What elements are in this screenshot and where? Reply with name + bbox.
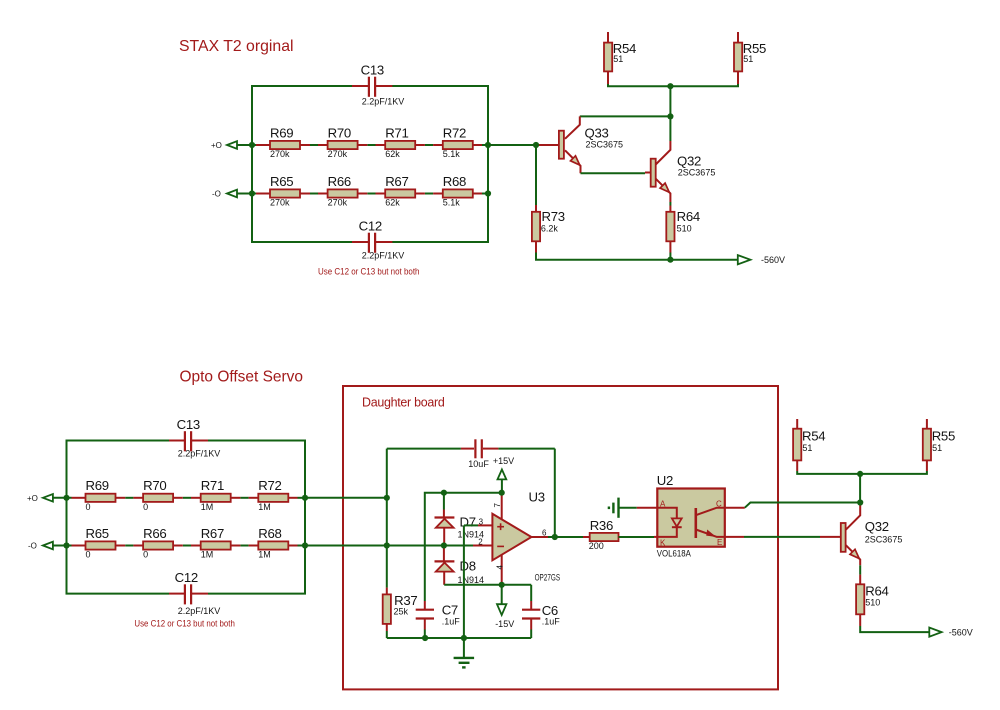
optocoupler U2 bbox=[657, 473, 725, 559]
resistor R69 bbox=[256, 125, 310, 159]
capacitor C12 bbox=[352, 218, 404, 260]
wire C7 to rail bbox=[424, 630, 426, 639]
wire 10uF left bbox=[387, 448, 461, 450]
svg-text:C7: C7 bbox=[442, 603, 458, 618]
wire Q33 collector net bbox=[580, 115, 671, 117]
capacitor C13 bbox=[352, 62, 404, 106]
wire bottom rail bbox=[536, 253, 738, 260]
wire D8 bottom row bbox=[444, 584, 531, 586]
svg-text:Q32: Q32 bbox=[865, 519, 889, 534]
svg-text:D7: D7 bbox=[460, 515, 476, 530]
svg-text:62k: 62k bbox=[385, 149, 400, 159]
svg-text:R70: R70 bbox=[143, 478, 166, 493]
wire +O row bottom bbox=[53, 497, 72, 499]
svg-text:3: 3 bbox=[479, 518, 484, 527]
svg-text:1N914: 1N914 bbox=[458, 575, 485, 585]
svg-text:2.2pF/1KV: 2.2pF/1KV bbox=[362, 97, 405, 107]
svg-text:R67: R67 bbox=[201, 526, 224, 541]
wire -O row bbox=[237, 193, 256, 195]
resistor R72 bbox=[433, 125, 482, 159]
svg-text:R69: R69 bbox=[86, 478, 109, 493]
resistor R54 bbox=[604, 32, 636, 84]
svg-text:0: 0 bbox=[86, 502, 91, 512]
svg-text:6: 6 bbox=[542, 529, 547, 538]
svg-text:R72: R72 bbox=[443, 125, 466, 140]
wire R54 R55 bottoms bbox=[608, 84, 738, 86]
wire R64 bottom bbox=[669, 253, 671, 260]
svg-text:-15V: -15V bbox=[495, 619, 514, 629]
svg-text:Use C12 or C13 but not both: Use C12 or C13 but not both bbox=[134, 619, 235, 629]
node -560V arrow bottom bbox=[929, 627, 973, 637]
wire bottom C13 net bbox=[67, 441, 170, 594]
wire top right vertical bbox=[392, 86, 488, 242]
capacitor C6 bbox=[522, 601, 560, 630]
svg-text:2SC3675: 2SC3675 bbox=[865, 535, 903, 545]
svg-text:-560V: -560V bbox=[761, 255, 785, 265]
resistor R66 bottom bbox=[133, 526, 182, 560]
svg-text:0: 0 bbox=[143, 550, 148, 560]
svg-text:STAX T2 orginal: STAX T2 orginal bbox=[179, 38, 294, 55]
resistor R36 bbox=[583, 518, 619, 551]
diode D8 bbox=[435, 546, 485, 586]
wire feedback vertical bbox=[554, 449, 556, 537]
node -O input arrow bottom bbox=[28, 542, 53, 551]
svg-text:510: 510 bbox=[677, 223, 692, 233]
resistor R68 bottom bbox=[249, 526, 298, 560]
resistor R64 bbox=[666, 206, 700, 253]
svg-text:270k: 270k bbox=[328, 149, 348, 159]
resistor R72 bottom bbox=[249, 478, 298, 512]
svg-text:R67: R67 bbox=[385, 174, 408, 189]
LED inside U2 bbox=[657, 508, 677, 519]
resistor R67 bottom bbox=[191, 526, 240, 560]
wire C6 drop bbox=[530, 585, 532, 601]
resistor R66 bbox=[318, 174, 367, 208]
svg-text:2.2pF/1KV: 2.2pF/1KV bbox=[362, 251, 405, 261]
svg-text:R72: R72 bbox=[258, 478, 281, 493]
daughter board box bbox=[343, 386, 778, 689]
resistor R70 bbox=[318, 125, 367, 159]
svg-text:C13: C13 bbox=[177, 417, 200, 432]
svg-text:5.1k: 5.1k bbox=[443, 198, 461, 208]
node -560V arrow bbox=[738, 255, 785, 265]
svg-text:Daughter board: Daughter board bbox=[362, 395, 445, 410]
svg-text:R64: R64 bbox=[677, 209, 700, 224]
svg-text:VOL618A: VOL618A bbox=[657, 549, 691, 559]
svg-text:2SC3675: 2SC3675 bbox=[586, 139, 624, 149]
wire ground rail bbox=[387, 637, 531, 639]
wire gnd to A pin bbox=[620, 507, 637, 509]
wire -O gaps bbox=[310, 193, 488, 195]
svg-text:U2: U2 bbox=[657, 473, 673, 488]
capacitor C12 bottom bbox=[169, 570, 220, 616]
svg-text:+O: +O bbox=[27, 494, 38, 503]
wire R36 to U2 bbox=[619, 536, 655, 538]
wire C6 to rail bbox=[530, 630, 532, 639]
svg-text:1M: 1M bbox=[201, 502, 214, 512]
wire +O gaps bottom bbox=[125, 497, 305, 499]
wire Q32 emitter link bottom bbox=[859, 565, 861, 574]
svg-text:R66: R66 bbox=[328, 174, 351, 189]
resistor R67 bbox=[376, 174, 425, 208]
svg-text:C12: C12 bbox=[175, 570, 198, 585]
capacitor 10uF bbox=[461, 439, 499, 469]
svg-text:.1uF: .1uF bbox=[542, 616, 561, 626]
capacitor C13 bottom bbox=[169, 417, 220, 459]
svg-text:6.2k: 6.2k bbox=[541, 223, 559, 233]
svg-text:+O: +O bbox=[211, 141, 222, 150]
resistor R71 bottom bbox=[191, 478, 240, 512]
svg-text:R65: R65 bbox=[86, 526, 109, 541]
ground symbol sideways bbox=[609, 498, 619, 518]
svg-text:270k: 270k bbox=[270, 149, 290, 159]
svg-text:R54: R54 bbox=[802, 429, 825, 444]
svg-text:R69: R69 bbox=[270, 125, 293, 140]
power +15V symbol bbox=[493, 456, 514, 493]
svg-text:270k: 270k bbox=[328, 198, 348, 208]
ground symbol bbox=[454, 658, 475, 668]
wire +O row bbox=[237, 144, 256, 146]
resistor R68 bbox=[433, 174, 482, 208]
svg-text:+15V: +15V bbox=[493, 456, 514, 466]
svg-text:R66: R66 bbox=[143, 526, 166, 541]
svg-text:U3: U3 bbox=[529, 489, 545, 504]
wire left vertical R37 bbox=[386, 449, 388, 588]
wire R54 R55 bottoms bbox=[797, 471, 927, 474]
svg-text:0: 0 bbox=[143, 502, 148, 512]
transistor Q33 bbox=[536, 116, 623, 173]
svg-text:R64: R64 bbox=[865, 584, 888, 599]
svg-text:2.2pF/1KV: 2.2pF/1KV bbox=[178, 606, 221, 616]
resistor R71 bbox=[376, 125, 425, 159]
wire -O row into board bbox=[305, 545, 473, 547]
svg-text:Use C12 or C13 but not both: Use C12 or C13 but not both bbox=[318, 267, 420, 277]
svg-text:510: 510 bbox=[865, 598, 880, 608]
op-amp U3 bbox=[473, 489, 560, 585]
svg-text:51: 51 bbox=[613, 54, 623, 64]
wire +O row to Q33 base bbox=[488, 144, 536, 146]
junction dots bottom bbox=[63, 471, 863, 641]
resistor R55 bottom bbox=[923, 419, 955, 471]
svg-text:0: 0 bbox=[86, 550, 91, 560]
wire +O gaps bbox=[310, 144, 488, 146]
svg-text:-O: -O bbox=[212, 190, 221, 199]
transistor Q32 bbox=[645, 141, 715, 202]
wire R64 to -560V bbox=[860, 626, 929, 632]
svg-text:C12: C12 bbox=[359, 218, 382, 233]
svg-text:OP27GS: OP27GS bbox=[535, 572, 561, 582]
svg-text:R65: R65 bbox=[270, 174, 293, 189]
svg-text:R36: R36 bbox=[590, 518, 613, 533]
svg-text:R68: R68 bbox=[443, 174, 466, 189]
wire R37 to rail bbox=[386, 631, 388, 638]
svg-text:4: 4 bbox=[495, 565, 504, 570]
wire bottom right vertical bbox=[208, 441, 305, 594]
node +O input arrow bottom bbox=[27, 494, 53, 503]
resistor R37 bbox=[383, 588, 418, 631]
resistor R55 bbox=[734, 32, 766, 84]
svg-text:7: 7 bbox=[493, 503, 502, 508]
wire -O row bottom bbox=[53, 545, 72, 547]
svg-text:C13: C13 bbox=[361, 62, 384, 77]
wire pin3 vertical to ground bbox=[463, 525, 465, 657]
svg-text:K: K bbox=[660, 539, 666, 548]
node -O input arrow bbox=[212, 190, 237, 199]
svg-text:51: 51 bbox=[932, 443, 942, 453]
resistor R64 bottom bbox=[856, 575, 888, 626]
svg-text:62k: 62k bbox=[385, 198, 400, 208]
wire 10uF right bbox=[498, 448, 554, 450]
svg-text:Q32: Q32 bbox=[677, 154, 701, 169]
wire collector drop bottom bbox=[859, 474, 861, 503]
svg-text:2SC3675: 2SC3675 bbox=[678, 167, 716, 177]
svg-text:-560V: -560V bbox=[949, 627, 973, 637]
node +O input arrow bbox=[211, 141, 237, 150]
transistor Q32 bottom bbox=[820, 503, 902, 566]
svg-text:.1uF: .1uF bbox=[442, 616, 461, 626]
svg-text:E: E bbox=[717, 538, 722, 547]
resistor R73 bbox=[532, 205, 565, 253]
capacitor C7 bbox=[416, 601, 461, 630]
wire Q33 emitter to Q32 base bbox=[581, 172, 646, 174]
wire pin3 row bbox=[464, 524, 478, 526]
svg-text:R73: R73 bbox=[542, 209, 565, 224]
power -15V symbol bbox=[495, 585, 514, 629]
svg-text:1M: 1M bbox=[201, 550, 214, 560]
svg-text:R68: R68 bbox=[258, 526, 281, 541]
svg-text:5.1k: 5.1k bbox=[443, 149, 461, 159]
svg-text:R70: R70 bbox=[328, 125, 351, 140]
wire Q32 collector drop bbox=[669, 116, 671, 141]
resistor R69 bottom bbox=[72, 478, 126, 512]
wire -O gaps bottom bbox=[125, 545, 305, 547]
svg-text:-O: -O bbox=[28, 542, 37, 551]
svg-text:Q33: Q33 bbox=[585, 126, 609, 141]
wire collector drop bbox=[669, 86, 671, 116]
resistor R54 bottom bbox=[793, 419, 825, 471]
wire E pin out bbox=[725, 536, 744, 538]
svg-text:1M: 1M bbox=[258, 502, 271, 512]
wire C pin out bbox=[725, 507, 745, 509]
resistor R65 bbox=[256, 174, 310, 208]
svg-text:D8: D8 bbox=[460, 559, 476, 574]
diode D7 bbox=[435, 493, 485, 546]
svg-text:200: 200 bbox=[589, 541, 604, 551]
wire Q32 emitter link bbox=[669, 202, 671, 206]
resistor R65 bottom bbox=[72, 526, 126, 560]
svg-text:2: 2 bbox=[478, 538, 483, 547]
svg-text:R71: R71 bbox=[201, 478, 224, 493]
wire op-amp output bbox=[548, 536, 583, 538]
svg-text:270k: 270k bbox=[270, 198, 290, 208]
svg-text:1M: 1M bbox=[258, 550, 271, 560]
svg-text:51: 51 bbox=[743, 54, 753, 64]
wire +15V rail bbox=[425, 493, 502, 601]
wire top C13 net bbox=[252, 86, 352, 242]
svg-text:Opto Offset Servo: Opto Offset Servo bbox=[180, 368, 304, 385]
svg-text:10uF: 10uF bbox=[468, 459, 489, 469]
svg-text:25k: 25k bbox=[394, 606, 409, 616]
wire R73 top bbox=[535, 145, 537, 205]
svg-text:R71: R71 bbox=[385, 125, 408, 140]
wire +O row into board bbox=[305, 497, 387, 499]
junction dots top bbox=[249, 83, 674, 263]
svg-text:2.2pF/1KV: 2.2pF/1KV bbox=[178, 449, 221, 459]
svg-text:R55: R55 bbox=[932, 429, 955, 444]
resistor R70 bottom bbox=[133, 478, 182, 512]
svg-text:51: 51 bbox=[802, 443, 812, 453]
phototransistor inside U2 bbox=[694, 508, 697, 538]
